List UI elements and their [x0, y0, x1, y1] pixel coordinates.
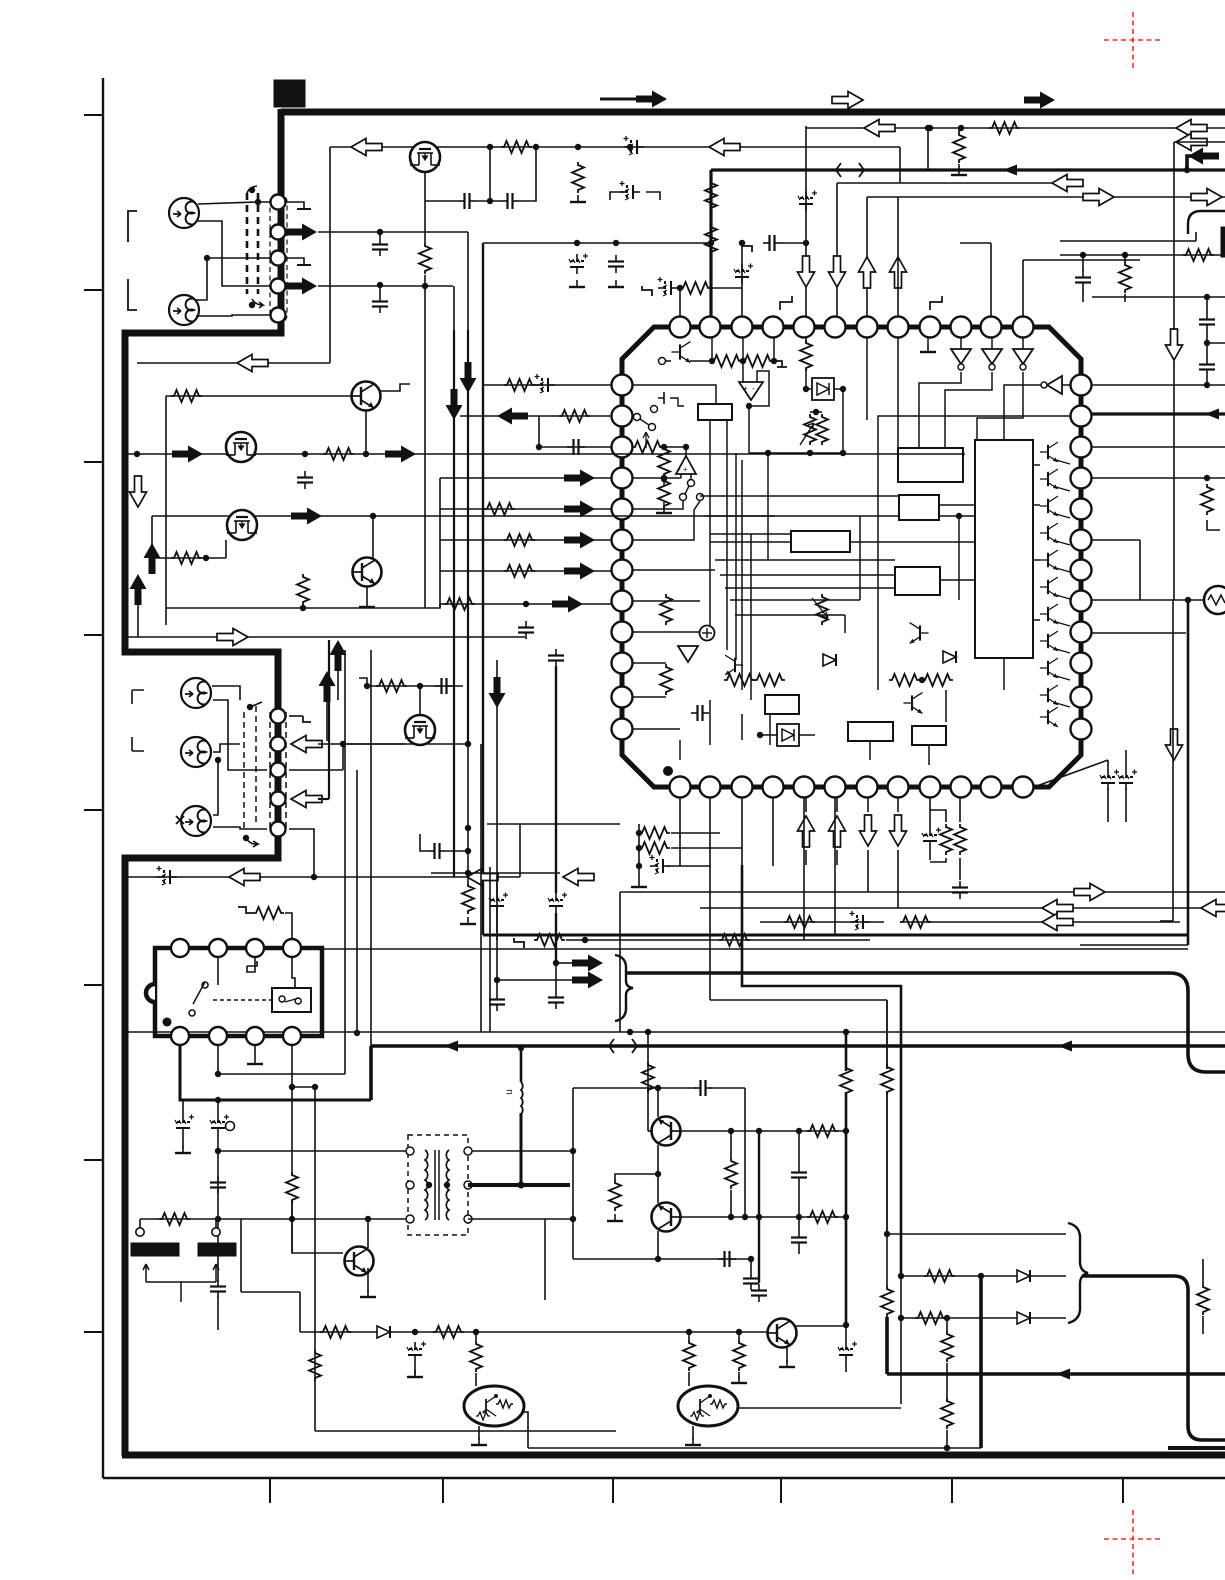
opamp A3 [678, 646, 698, 662]
IC pin top 10 [951, 317, 972, 338]
arrowhead y1048 l [444, 1041, 458, 1052]
vert x900a [899, 147, 901, 183]
vert x468 [467, 232, 469, 330]
IC pin right 7 [1071, 560, 1092, 581]
IC pin top 12 [1013, 317, 1034, 338]
row y453 [749, 452, 843, 454]
thick vert x888 [885, 1317, 889, 1374]
inner res v5 [660, 594, 672, 625]
junction [958, 125, 964, 131]
wire c8 to x806 [781, 242, 806, 244]
thick vert x981 [979, 1276, 983, 1448]
mosfet Q3 [226, 432, 256, 462]
inverter left [1041, 376, 1062, 394]
bold vert x846 [845, 1032, 848, 1071]
page left border [102, 78, 104, 1478]
wire pin B5 [289, 829, 314, 877]
transformer T1 dashed box [408, 1135, 468, 1235]
res v x1207 [1201, 484, 1213, 515]
cap h 437b [428, 843, 446, 859]
cap v 799a [791, 1166, 807, 1184]
up arrow 2 [130, 574, 147, 605]
U1 block 2 [899, 495, 939, 520]
junction [728, 1214, 734, 1220]
resistor above relay [253, 907, 284, 919]
thick wire y170 [711, 168, 1225, 171]
junction [215, 1071, 221, 1077]
cap C5 v [372, 295, 388, 313]
IC pin bottom 6 [825, 777, 846, 798]
svg-text:-: - [752, 384, 755, 393]
corner x1173 [1160, 920, 1173, 922]
wire ecap1 [1034, 760, 1108, 787]
open arrow up x898 [890, 257, 907, 288]
dbox wires [806, 388, 812, 390]
junction [215, 757, 221, 763]
wire y908 [700, 907, 1225, 909]
ecap y385 [535, 374, 556, 393]
IC pin top 9 [920, 317, 941, 338]
wire 1292 [291, 1219, 293, 1253]
mesh y560 [715, 559, 895, 561]
U1 block 1 [898, 448, 963, 482]
wire y873 [431, 872, 560, 874]
lamp LB2 [181, 737, 211, 767]
vert x545b [544, 1219, 546, 1300]
junction [884, 1231, 890, 1237]
arrow y540 [564, 532, 595, 549]
inv3 out [977, 372, 1023, 440]
U1 block 4 [895, 567, 940, 595]
wire y922 left [760, 921, 884, 923]
wire x453 [453, 286, 455, 330]
left tick 2 [84, 289, 103, 291]
open arrow pin B4 [291, 791, 322, 808]
res v 615 [609, 1180, 621, 1211]
wire a4 row [318, 285, 453, 287]
cable shield dashed B [244, 706, 286, 830]
cap C7 [608, 255, 624, 273]
gnd pin930 [927, 338, 929, 345]
resistor R6 vert [705, 180, 717, 211]
inner pot 2 [816, 594, 828, 625]
IC pin left 12 [612, 719, 633, 740]
wire y243b [960, 242, 991, 244]
res v pin806 [800, 340, 812, 371]
arrow into A4 [286, 278, 317, 295]
wire c1-c2 [476, 200, 501, 202]
IC pin right 6 [1071, 530, 1092, 551]
pin663 wire [633, 662, 666, 664]
res v 476 [470, 1341, 482, 1372]
res h y1332b [433, 1326, 464, 1338]
mesh y542 [850, 541, 975, 543]
inv drops [960, 338, 962, 349]
pin601 wire [633, 600, 700, 602]
IC pin left 8 [612, 591, 633, 612]
arrow y509 [564, 501, 595, 518]
wire 946 loop [930, 858, 946, 862]
svg-text:- +: - + [678, 465, 688, 474]
break y1048 [609, 1039, 637, 1053]
vert 680 [679, 288, 681, 327]
IC pin top 1 [670, 317, 691, 338]
wires into left pins [440, 508, 611, 510]
res h 823a [807, 1125, 838, 1137]
bold vert x759 [758, 1131, 760, 1283]
Q2 emitter join [365, 410, 367, 454]
NPN Q9 [768, 1319, 797, 1348]
IC index dot [663, 766, 673, 776]
inverter 2 [982, 349, 1002, 370]
junction [1185, 597, 1191, 603]
row y1131 [680, 1130, 846, 1132]
junction [533, 144, 539, 150]
registration cross bottom-right [1104, 1510, 1161, 1574]
long vert x455 [453, 330, 455, 850]
ecap 930r [922, 828, 941, 849]
junction [553, 960, 559, 966]
cap v 497 [489, 993, 505, 1011]
sigma node [700, 626, 715, 641]
U1 block 5 [765, 695, 799, 714]
junction [843, 1322, 849, 1328]
connector pins B [271, 709, 286, 724]
res row447 [633, 446, 634, 448]
registration cross top-right [1104, 12, 1161, 69]
pin697 wire [633, 696, 666, 698]
arrow into A2 [286, 224, 317, 241]
vert x300b [299, 1292, 301, 1332]
cap x556 [548, 649, 564, 667]
wire y297 [1092, 296, 1225, 298]
IC pin bottom 3 [732, 777, 753, 798]
long vert x483 [482, 243, 484, 935]
arrowhead left y170 [1003, 165, 1017, 176]
vert x539 [538, 416, 540, 447]
IC U1 body [622, 327, 1081, 787]
junction [1204, 294, 1210, 300]
junction [796, 1214, 802, 1220]
junction [1122, 252, 1128, 258]
vert gate q4 [225, 540, 227, 558]
relay pins top [171, 939, 189, 957]
U1 block 6 [848, 722, 893, 741]
svg-text:+: + [743, 384, 748, 393]
page bottom border [103, 1477, 1225, 1479]
open arrow down left [130, 476, 147, 507]
inner transistor Q12 [903, 693, 922, 714]
IC pin bottom 10 [951, 777, 972, 798]
osc top wire [573, 1087, 696, 1089]
arrow y454 a [172, 446, 203, 463]
small circles [136, 1228, 144, 1236]
wire y197 [867, 196, 1225, 198]
block bar right edge [1221, 227, 1225, 257]
Q6 wires [292, 1200, 343, 1253]
pin509 wire [633, 501, 683, 509]
wire y516 dot [956, 513, 962, 519]
wire y940 [514, 938, 524, 948]
wire y416 to pin [460, 415, 611, 417]
wire LB2 [213, 744, 240, 752]
IC pin top 8 [888, 317, 909, 338]
res v 648 [642, 1062, 654, 1093]
wire y686 [367, 685, 463, 687]
ecap C6 [569, 254, 588, 275]
junction [575, 144, 581, 150]
wire y824 hline [487, 823, 620, 825]
bottom bus right step [1168, 1446, 1225, 1450]
invL in [1004, 385, 1041, 440]
IC pin top 4 [763, 317, 784, 338]
open down arrow 868 [867, 830, 869, 832]
IC pin right 8 [1071, 591, 1092, 612]
vert x901 [900, 1276, 902, 1404]
ecap r2 [210, 1115, 229, 1136]
junction [803, 240, 809, 246]
wire y922 [900, 921, 1180, 923]
IC pin bottom 1 [670, 777, 691, 798]
cap C14 v [518, 621, 534, 639]
driver transistor 2 [1040, 469, 1058, 489]
row y1332 [300, 1331, 769, 1333]
up arrow 3 [330, 640, 347, 671]
IC pin left 5 [612, 499, 633, 520]
relay pins bottom [171, 1027, 189, 1045]
wire y255 [1060, 254, 1222, 256]
thermistor RT1 [1204, 586, 1225, 614]
res v 887b [881, 1064, 893, 1095]
wire y744 [318, 743, 468, 745]
open up arrow 837 [829, 816, 846, 847]
inv2 out [945, 372, 992, 448]
inner transistor Q11 [910, 623, 929, 644]
left tick 5 [84, 809, 103, 811]
relay dashed link [213, 999, 272, 1001]
A1 out [748, 406, 750, 453]
open arrow down x806 [798, 256, 815, 287]
left ground bus zigzag [125, 109, 281, 1456]
left tick 7 [84, 1159, 103, 1161]
A2 inputs [680, 474, 682, 478]
open down arrow 1174 [1166, 729, 1183, 760]
wire y516 [152, 515, 775, 517]
break y170 [836, 163, 864, 177]
oval2 right [737, 1407, 901, 1409]
cap bracket gnd [610, 192, 660, 200]
IC pin bottom 7 [857, 777, 878, 798]
driver transistor 10 [1040, 685, 1058, 705]
left tick 4 [84, 634, 103, 636]
ecap y877 [157, 866, 178, 885]
gnd stub 780 [780, 296, 792, 310]
thick wire relay [180, 1045, 371, 1100]
vert x837 [836, 183, 838, 327]
cap v 751 [743, 1272, 759, 1290]
ecap x556 [548, 893, 567, 914]
junction [843, 1128, 849, 1134]
junction [570, 1148, 576, 1154]
verts below ic mid [803, 798, 805, 940]
res v 947a [941, 1331, 953, 1362]
gnd r1 [182, 1135, 184, 1148]
junction [465, 870, 471, 876]
IC pin left 2 [612, 406, 633, 427]
inductor L1 [521, 1082, 523, 1114]
junction [523, 601, 529, 607]
open arrow right y637 [125, 636, 525, 638]
relay dot [163, 1018, 172, 1027]
brace 2 [1068, 1223, 1088, 1323]
A1 feedback [749, 371, 769, 406]
vert x315 [314, 1096, 316, 1431]
arrow into pin [552, 596, 583, 613]
open arrows right edge [1176, 120, 1207, 137]
junction [204, 255, 210, 261]
wire y385 to pin [483, 384, 611, 386]
open arrow top mid [832, 92, 863, 109]
wire y478r [1092, 477, 1225, 479]
shield hook A [247, 186, 257, 193]
IC pin right 2 [1071, 406, 1092, 427]
solid down arrow x497 [489, 677, 506, 708]
junction [422, 283, 428, 289]
row y1217 [679, 1216, 846, 1218]
inner transistor Q10 [671, 342, 690, 363]
pin drops top [711, 338, 713, 361]
IC pin right 11 [1071, 687, 1092, 708]
thick bus y1048 [371, 1044, 1225, 1048]
res pair y833 [639, 827, 670, 839]
pin B1 gnd stub [289, 715, 303, 717]
res h 823b [807, 1211, 838, 1223]
xfmr secondary thick [468, 1183, 570, 1187]
wire c1 j [489, 147, 491, 201]
junction [708, 240, 714, 246]
cap C20 [694, 1080, 712, 1096]
inv1 out [919, 372, 961, 448]
gnd left of C8 [742, 242, 752, 252]
IC pin right 5 [1071, 499, 1092, 520]
vert bundle [709, 420, 711, 640]
lamp LA2 [169, 295, 199, 325]
junction [655, 1256, 661, 1262]
wire lampA2b to pin5 [196, 315, 270, 316]
vert x371 [370, 650, 372, 1080]
ecap 415 [407, 1342, 426, 1363]
pin A3 stub [286, 258, 304, 265]
mesh y496 [700, 495, 898, 497]
res row y361 [690, 360, 712, 362]
mosfet Q4 [227, 510, 257, 540]
mesh y588 [725, 587, 895, 589]
resistor R11 [171, 390, 202, 402]
junction [487, 144, 493, 150]
resistor R12 [323, 448, 354, 460]
vert x742 [741, 243, 743, 327]
inner res v6 [660, 664, 672, 695]
arrow y478 [564, 470, 595, 487]
vert x1023 [1022, 260, 1024, 327]
arrow y516 [291, 508, 322, 525]
bottom tick 1 [269, 1478, 271, 1503]
relay RY1 box [155, 948, 322, 1036]
ecap 846 [838, 1342, 857, 1363]
IC pin bottom 12 [1013, 777, 1034, 798]
IC pin bottom 9 [920, 777, 941, 798]
mesh y615 [735, 614, 845, 616]
driver transistor 1 [1040, 442, 1058, 462]
Q2 collector stub [381, 384, 410, 391]
IC pin top 7 [857, 317, 878, 338]
long vert x1174 [1173, 142, 1175, 330]
wire y945 [1080, 944, 1188, 946]
inner res h8 [889, 674, 920, 686]
junction [736, 1329, 742, 1335]
bracket 1207 [1207, 520, 1220, 530]
terminal arrows [143, 1264, 219, 1302]
junction [1080, 252, 1086, 258]
left tick 6 [84, 984, 103, 986]
junction [312, 1084, 318, 1090]
wire y1151 [218, 1150, 410, 1152]
IC pin bottom 2 [700, 777, 721, 798]
wire y540r [1092, 539, 1140, 541]
inverter 1 [951, 349, 971, 370]
gnd stub 935 [930, 296, 942, 310]
bracket mark B [132, 690, 144, 751]
gnd stub y686 [359, 678, 367, 686]
vert from h1 [329, 147, 331, 363]
diode box 2 [777, 724, 799, 746]
resistor R9 [1183, 249, 1214, 261]
cap h 727 [718, 1251, 736, 1267]
res v 946 [940, 824, 952, 855]
wire y183 [837, 182, 1079, 184]
cable shield dashed A [247, 193, 258, 294]
res v 1203 [1197, 1284, 1209, 1315]
resistor R1 [501, 141, 532, 153]
wire y892 [620, 891, 1225, 893]
open down arrow 898 [890, 815, 907, 846]
junction [574, 240, 580, 246]
junction [289, 1084, 295, 1090]
junction [742, 1214, 748, 1220]
connector pins A [271, 195, 286, 210]
vert x357 [356, 770, 358, 1033]
vert x481 [480, 744, 482, 1032]
pin570 wire [633, 569, 715, 571]
junction [796, 1128, 802, 1134]
transformer windings [425, 1150, 428, 1220]
mosfet Q1 [410, 142, 440, 172]
top power bus [281, 109, 1225, 116]
junction [340, 741, 346, 747]
thick wire from brace [627, 973, 1225, 1072]
thick path brace2 [1082, 1276, 1225, 1440]
wire c2 up [519, 147, 536, 201]
U1 block 7 [912, 726, 946, 745]
IC pin right 12 [1071, 719, 1092, 740]
res v 468c [462, 883, 474, 914]
wire y600 [1092, 599, 1204, 601]
res pair y848 [639, 842, 670, 854]
long vert x843 [842, 389, 844, 453]
IC pin right 1 [1071, 375, 1092, 396]
resistor R7 vert [705, 224, 717, 255]
pin A1 stub [286, 202, 304, 209]
